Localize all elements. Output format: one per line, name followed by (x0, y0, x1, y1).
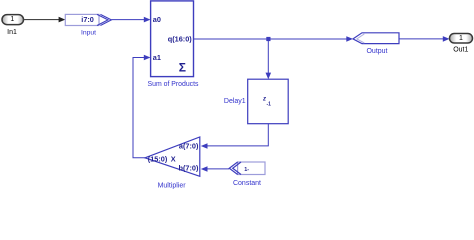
input port In1 (2, 15, 24, 25)
multiplier Mult (145, 137, 200, 176)
svg-text:In1: In1 (7, 29, 17, 36)
svg-text:a0: a0 (153, 15, 161, 24)
svg-text:1: 1 (459, 35, 463, 42)
svg-text:a(7:0): a(7:0) (179, 142, 199, 151)
wire junction to Delay1 (266, 39, 272, 79)
svg-text:X: X (171, 154, 176, 163)
gateway Output (353, 33, 399, 44)
svg-text:Delay1: Delay1 (224, 98, 246, 105)
block Delay1 (248, 79, 289, 124)
svg-text:a1: a1 (153, 53, 161, 62)
svg-text:Sum of Products: Sum of Products (148, 81, 199, 88)
svg-text:Out1: Out1 (453, 46, 468, 53)
svg-text:Input: Input (81, 30, 96, 37)
wire Input to a0 (111, 17, 150, 23)
svg-text:Σ: Σ (179, 60, 186, 74)
wire multiplier output to a1 (133, 55, 151, 158)
wire Delay1 to multiplier a (201, 124, 268, 149)
svg-text:q(16:0): q(16:0) (168, 35, 192, 44)
svg-text:i7:0: i7:0 (81, 15, 94, 24)
gateway Input (65, 14, 111, 25)
svg-text:(15:0): (15:0) (148, 154, 168, 163)
wire Constant to multiplier b (201, 166, 230, 172)
svg-text:1: 1 (10, 16, 14, 23)
svg-text:Multiplier: Multiplier (158, 182, 187, 189)
block Sum of Products U1 (151, 1, 194, 77)
junction node (266, 37, 270, 41)
constant Constant (229, 162, 265, 175)
svg-text:z: z (262, 97, 266, 103)
svg-text:Constant: Constant (233, 180, 261, 187)
output port Out1 (450, 34, 473, 44)
wire In1 to Input (24, 17, 66, 23)
wire q to Output (194, 36, 354, 42)
svg-text:b(7:0): b(7:0) (179, 163, 199, 172)
svg-text:-1: -1 (267, 102, 272, 108)
svg-text:1-: 1- (244, 167, 249, 173)
svg-text:Output: Output (366, 48, 387, 55)
wire Output to Out1 (399, 36, 450, 42)
